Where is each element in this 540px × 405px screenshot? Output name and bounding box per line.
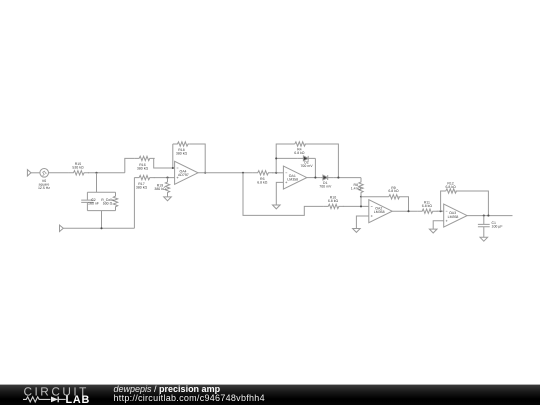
svg-text:500 Ω: 500 Ω [103,201,113,205]
wire riser to R17 [133,178,135,229]
op-amp OA4 [175,161,198,184]
label OA2 [374,206,385,214]
svg-text:6.8 kΩ: 6.8 kΩ [422,204,433,208]
svg-text:1.4 kΩ: 1.4 kΩ [351,186,362,190]
wire feedback R12 left riser [441,191,446,211]
label R18 [176,148,188,156]
svg-text:100 µF: 100 µF [492,225,503,229]
wire [101,211,103,229]
junction [204,172,206,174]
svg-text:380 kΩ: 380 kΩ [176,152,188,156]
wire [272,172,283,174]
resistor R_Cello [113,192,117,210]
wire [154,158,175,168]
label R16 [137,163,149,171]
op-amp OA3 [444,204,467,227]
svg-text:6.8 kΩ: 6.8 kΩ [257,180,268,184]
wire OA1 plus to ground [276,182,283,205]
footer bar [0,385,540,405]
label R12 [445,182,456,190]
wire R9 line [361,196,389,198]
CircuitLab logo [23,384,90,405]
label OA3 [448,211,459,219]
ground [429,229,437,233]
wire D2 riser [314,158,316,177]
wire [31,172,40,174]
net flag bottom [60,225,64,231]
capacitor C1 [478,216,490,238]
wire [96,173,98,193]
resistor R17 [134,175,154,179]
wire OA3 output [467,215,512,217]
svg-text:700 mV: 700 mV [319,184,332,188]
junction [360,196,362,198]
resistor R10 [323,204,343,208]
svg-text:LM358: LM358 [448,215,459,219]
svg-text:LM358: LM358 [287,177,298,181]
resistor R4 [295,142,306,146]
junction [314,177,316,179]
svg-text:700 mV: 700 mV [300,164,313,168]
svg-text:380 kΩ: 380 kΩ [137,167,149,171]
label R9 [388,186,399,193]
label C2 [88,198,99,206]
ground [164,197,172,201]
svg-text:6.8 kΩ: 6.8 kΩ [388,189,399,193]
svg-text:AD797: AD797 [178,173,189,177]
resistor R11 [417,209,437,213]
wire [437,210,444,212]
junction [440,210,442,212]
junction [275,157,277,159]
label D1 [319,181,332,189]
junction [360,205,362,207]
resistor R15 [69,171,89,175]
svg-text:12.5 Hz: 12.5 Hz [38,186,50,190]
svg-text:LM358: LM358 [374,210,385,214]
wire OA2 plus to ground [356,216,368,228]
wire OA4 output [198,172,253,174]
diode D2 [297,156,315,161]
ground [480,237,488,241]
wire D2 branch [276,157,297,159]
net flag IN [27,170,31,176]
svg-text:160 nF: 160 nF [88,201,99,205]
node A [95,172,97,174]
wire feedback riser left [172,144,174,168]
label C1 [492,221,503,229]
label R6 [257,177,268,185]
wire feedback R9 right [398,197,408,211]
label R17 [136,182,148,190]
label R11 [422,200,433,208]
wire [49,172,69,174]
label D2 [300,161,313,169]
svg-text:http://circuitlab.com/c946748v: http://circuitlab.com/c946748vbfhh4 [114,393,265,403]
wire [333,177,361,179]
svg-text:530 kΩ: 530 kΩ [72,166,84,170]
label R15 [72,162,84,170]
wire feedback R12 right [456,191,489,216]
svg-text:380 kΩ: 380 kΩ [136,186,148,190]
label OA4 [178,169,189,177]
resistor R16 [134,156,154,160]
wire OA2 output [392,210,417,212]
junction [407,210,409,212]
ground [273,205,281,209]
label R_Cello [101,198,114,206]
svg-text:6.8 kΩ: 6.8 kΩ [294,151,305,155]
wire OA3 plus to ground [433,221,444,229]
wire node B down [243,173,323,216]
capacitor C2 [81,192,93,210]
junction [100,227,102,229]
svg-text:380 kΩ: 380 kΩ [154,187,166,191]
wire riser C up [276,144,295,173]
resistor R6 [253,171,273,175]
label R8 [351,183,362,191]
label R19 [154,184,166,192]
voltage source V6 [40,169,49,178]
op-amp OA2 [369,200,392,223]
svg-text:6.8 kΩ: 6.8 kΩ [328,199,339,203]
resistor R19 [165,178,169,197]
wire [125,158,135,172]
resistor R8 [359,178,363,197]
wire feedback R4 right [305,144,339,178]
svg-text:6.8 kΩ: 6.8 kΩ [445,185,456,189]
diode D1 [320,175,333,180]
parallel frame C2 R_Cello [87,192,115,210]
label OA1 [287,174,298,182]
wire [88,172,125,174]
junction [172,167,174,169]
junction C [275,172,277,174]
resistor R9 [389,195,400,199]
op-amp OA1 [283,166,306,189]
junction [166,177,168,179]
junction [483,215,485,217]
wire [154,177,175,179]
wire OA1 output [307,177,320,179]
ground [353,229,361,233]
wire [343,205,369,207]
wire feedback right [189,144,205,173]
wire R8 down [360,197,362,207]
junction [337,177,339,179]
resistor R12 [446,189,457,193]
resistor R18 [173,142,189,146]
label V6 [38,179,50,190]
junction [487,215,489,217]
label R4 [294,148,305,156]
label R10 [328,196,339,204]
wire bottom rail [63,227,134,229]
node B [242,172,244,174]
svg-text:LAB: LAB [66,394,91,405]
